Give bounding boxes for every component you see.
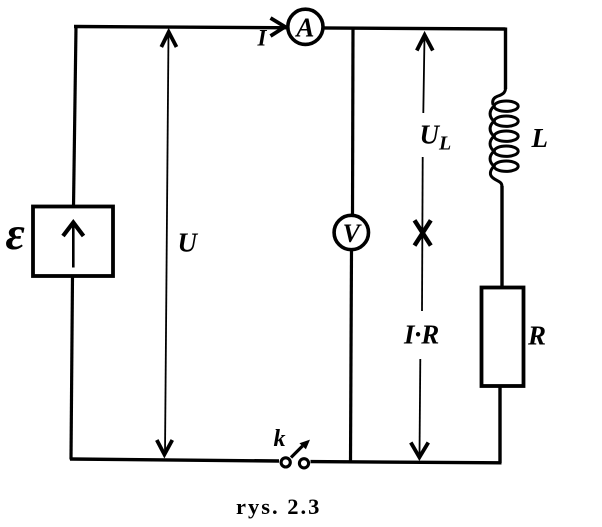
wire top (node between source, ammeter branch) [74, 27, 506, 30]
wire left lower segment [71, 276, 73, 460]
svg-text:rys. 2.3: rys. 2.3 [236, 494, 321, 519]
resistor R [482, 288, 524, 387]
svg-text:V: V [343, 219, 363, 248]
switch k [281, 440, 310, 468]
wire voltmeter branch upper [351, 28, 355, 216]
X junction of U_L and I·R arrowheads [415, 220, 431, 245]
wire voltmeter branch lower [351, 250, 352, 462]
inductor L (coil) [490, 88, 518, 188]
wire right upper segment (to inductor) [504, 28, 507, 90]
wire segment inductor to resistor [500, 186, 503, 288]
svg-text:U: U [178, 228, 199, 258]
svg-text:ε: ε [6, 208, 25, 260]
EMF source (battery box with arrow) [33, 207, 113, 277]
wire left upper segment [74, 27, 77, 208]
svg-text:L: L [531, 123, 549, 153]
svg-text:I·R: I·R [403, 320, 439, 350]
wire bottom left segment (to switch k) [70, 459, 279, 461]
current arrow I (arrowhead into ammeter) [271, 18, 286, 36]
svg-text:R: R [527, 321, 546, 351]
svg-text:I: I [257, 26, 268, 51]
ammeter A [288, 9, 323, 44]
measure arrow U (double-headed, source voltage) [157, 32, 177, 455]
wire bottom right segment (switch to resistor branch) [311, 462, 502, 463]
voltmeter V [334, 215, 368, 249]
svg-text:k: k [274, 426, 286, 452]
svg-text:A: A [294, 13, 314, 43]
measure arrow U_L / I·R (shared line with X junction) [411, 35, 433, 457]
wire resistor to bottom [498, 386, 501, 464]
